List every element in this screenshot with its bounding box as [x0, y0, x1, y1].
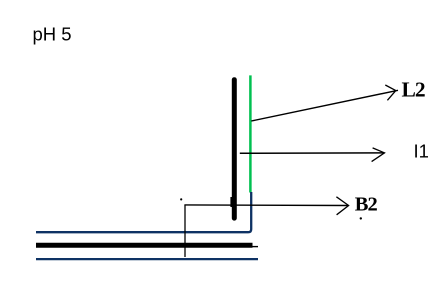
- small dot near junction corner: [180, 198, 182, 200]
- dot below B2: [360, 217, 362, 219]
- green vertical line: [249, 75, 252, 192]
- arrow B2 head: [336, 197, 348, 215]
- arrow I1 shaft: [240, 152, 385, 154]
- arrow B2 shaft: [184, 204, 348, 207]
- svg-text:B2: B2: [355, 193, 378, 215]
- thick black vertical bar (electrode): [232, 77, 237, 220]
- arrow I1 head: [372, 148, 385, 162]
- blue elbow line: vertical then horizontal to left: [36, 192, 251, 232]
- thick black horizontal bar: [36, 243, 253, 248]
- svg-text:I1: I1: [414, 140, 429, 161]
- svg-text:L2: L2: [402, 78, 425, 102]
- bottom blue horizontal line: [36, 258, 258, 260]
- arrow L2 shaft: [251, 90, 398, 121]
- svg-text:pH 5: pH 5: [33, 24, 72, 45]
- bulge on left of black bar: [230, 197, 232, 207]
- thin vertical line from B2 shaft down through bars: [184, 205, 186, 257]
- arrow L2 head: [385, 85, 396, 100]
- thin black extension at right of thick bar: [251, 246, 258, 248]
